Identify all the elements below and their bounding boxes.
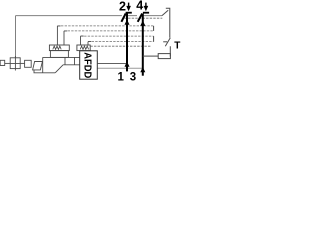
terminal box left: [0, 60, 5, 65]
enclosure frame bottom edge segment: [97, 67, 143, 69]
CT loop 2 right closure: [153, 36, 155, 42]
winding W1 hatched box: [49, 45, 69, 51]
CT loop line 3 (dashed): [81, 35, 154, 37]
pole B top feed arrow: [140, 21, 145, 26]
wire sensor to coupler box: [20, 62, 24, 64]
current sensor square with cross: [10, 58, 20, 69]
pole B conductor: [142, 14, 144, 76]
svg-text:2: 2: [119, 0, 126, 13]
svg-text:3: 3: [130, 71, 136, 83]
trip dashed link to AFDD: [90, 45, 151, 47]
test wire lower: [169, 46, 171, 56]
coupler small box: [25, 60, 32, 67]
sensor assembly inner divider 2: [74, 57, 76, 64]
mechanism dashed link at contacts: [125, 17, 163, 19]
terminal 2 arrow-bar mark: [128, 3, 130, 7]
pole A top feed arrow: [125, 20, 130, 25]
test button contact blade: [165, 38, 170, 47]
CT loop 2 left risers (dashed): [81, 36, 92, 45]
test resistor: [158, 54, 170, 59]
wire AFDD to pole A upper: [97, 63, 127, 65]
test button actuator bar: [163, 41, 167, 43]
enclosure frame left edge: [15, 16, 17, 58]
pole B contact blade: [138, 14, 143, 22]
pole B bottom feed arrow: [140, 67, 145, 72]
pole A conductor: [126, 14, 128, 72]
pole A bottom feed arrow: [125, 62, 130, 67]
pole A contact blade: [121, 14, 125, 22]
sensor assembly inner divider 1: [64, 57, 66, 64]
svg-text:1: 1: [118, 71, 125, 83]
actuator rod vertical with hook: [166, 8, 170, 37]
trip solenoid parallelogram: [33, 62, 43, 70]
winding W2 hatched box: [77, 45, 90, 51]
CT loop line 2 (dashed): [64, 30, 154, 32]
sensor assembly polygon: [43, 57, 80, 72]
enclosure frame top edge: [16, 15, 163, 17]
AFDD electronics box: [80, 51, 98, 79]
winding W1 under-box: [50, 51, 68, 58]
wire left terminal to sensor: [5, 62, 11, 64]
CT loop 1 left risers (dashed): [57, 26, 67, 45]
CT loop line 4 (dashed): [88, 41, 154, 43]
wire pole B to resistor: [143, 55, 158, 57]
svg-text:T: T: [174, 41, 180, 52]
CT loop 1 right closure: [153, 26, 155, 31]
CT loop line 1 (dashed): [57, 25, 153, 27]
svg-text:AFDD: AFDD: [81, 52, 92, 78]
wire parallelogram down to bottom wire: [34, 70, 55, 73]
actuator notch diagonal: [162, 10, 168, 15]
terminal 4 arrow-bar mark: [145, 3, 147, 7]
svg-text:4: 4: [136, 0, 143, 12]
